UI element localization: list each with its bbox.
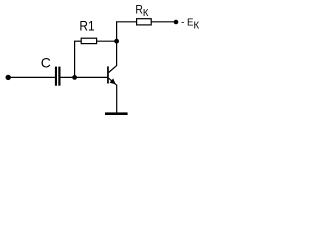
svg-text:R1: R1 — [79, 18, 94, 34]
svg-text:C: C — [41, 54, 51, 70]
